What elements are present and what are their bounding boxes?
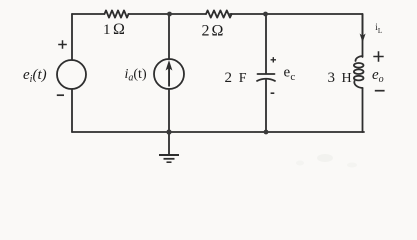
wire top right segment [266, 13, 363, 15]
label plus of inductor [373, 51, 383, 61]
wire left vertical upper [71, 14, 73, 60]
ground stem [168, 132, 170, 155]
wire node A to R2 [170, 13, 207, 15]
wire current source bottom lead [168, 89, 170, 132]
wire current source top lead [168, 14, 170, 59]
scan smudge 3 [296, 161, 304, 166]
svg-text:Ω: Ω [113, 21, 125, 38]
svg-text:H: H [342, 71, 352, 86]
resistor R2 [206, 10, 232, 17]
inductor L1 loop 1 [354, 63, 364, 68]
capacitor C1 top plate [258, 73, 275, 75]
node B dot [263, 12, 268, 17]
scan smudge 2 [347, 163, 357, 168]
svg-text:ei(t): ei(t) [23, 67, 47, 85]
wire right vertical upper with inductor lead [362, 14, 364, 57]
inductor L1 loop 3 [354, 76, 364, 81]
svg-text:2: 2 [225, 70, 233, 86]
svg-text:3: 3 [328, 70, 336, 86]
voltage source U1 circle [57, 60, 86, 89]
label minus of inductor [375, 90, 385, 92]
label plus of source e_i [58, 40, 67, 49]
wire bottom [72, 131, 364, 133]
label minus of capacitor [271, 92, 275, 94]
node A dot [167, 12, 172, 17]
svg-text:F: F [239, 71, 247, 86]
wire right vertical lower [362, 88, 364, 132]
ground bars [159, 155, 179, 162]
label plus of capacitor [271, 57, 276, 62]
label minus of source e_i [57, 94, 64, 96]
svg-text:Ω: Ω [212, 23, 224, 40]
inductor L1 coil bottom hook [354, 81, 362, 88]
svg-text:2: 2 [202, 23, 210, 40]
inductor L1 coil top hook [356, 56, 363, 61]
inductor current iL arrow [360, 14, 366, 43]
inductor L1 loop 2 [354, 69, 364, 74]
node ground junction dot [166, 129, 171, 134]
wire capacitor bottom lead [265, 80, 267, 132]
wire left vertical lower [71, 89, 73, 132]
node capacitor bottom junction dot [264, 130, 269, 135]
wire capacitor top lead [265, 14, 267, 74]
wire R1 to node A [129, 13, 170, 15]
current source I1 circle [154, 59, 184, 89]
wire R2 to node B [230, 13, 266, 15]
scan smudge 1 [317, 154, 333, 162]
wire top left segment [72, 13, 104, 15]
resistor R1 [105, 10, 129, 17]
svg-text:1: 1 [103, 22, 111, 38]
svg-text:ia(t): ia(t) [125, 67, 147, 84]
current source I1 arrow [166, 60, 173, 87]
capacitor C1 bottom plate [257, 79, 275, 81]
